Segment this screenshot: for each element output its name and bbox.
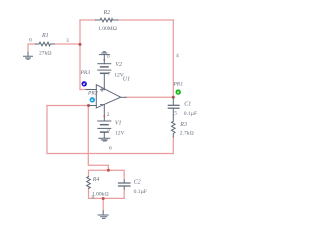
junction ground bottom	[102, 197, 105, 200]
svg-text:6: 6	[109, 145, 112, 151]
svg-text:V1: V1	[115, 120, 122, 126]
C1 plates	[168, 104, 179, 106]
wire RC box top rail	[89, 170, 125, 180]
C2 plates	[119, 182, 131, 184]
svg-text:0.1µF: 0.1µF	[134, 189, 147, 195]
wire ground stub bottom	[102, 198, 104, 211]
PR2 probe icon	[90, 97, 95, 102]
op-amp plus input pin	[86, 89, 96, 91]
op-amp plus input mark	[100, 88, 103, 91]
ground below V1	[99, 138, 110, 141]
svg-text:C1: C1	[184, 102, 191, 108]
svg-text:0.1µF: 0.1µF	[184, 111, 197, 117]
svg-text:1.00MΩ: 1.00MΩ	[98, 26, 117, 32]
svg-text:C2: C2	[134, 180, 141, 186]
op-amp V+ power pin 7	[103, 74, 105, 90]
V2 top lead	[103, 55, 105, 64]
svg-text:V2: V2	[115, 62, 122, 68]
junction RC tap	[107, 169, 110, 172]
svg-text:12V: 12V	[115, 130, 125, 136]
wire left rectangle node 6	[47, 106, 173, 154]
svg-text:2: 2	[107, 112, 110, 118]
C1 top lead	[172, 97, 174, 105]
junction node 3	[79, 43, 82, 46]
wire feedback drop node 6	[88, 106, 108, 171]
wire right vertical node 4	[172, 20, 174, 97]
PR1 probe icon	[176, 89, 181, 94]
op-amp output pin	[121, 96, 126, 98]
svg-text:PR3: PR3	[80, 70, 91, 76]
V1 bottom lead	[103, 132, 105, 138]
wire minus input node 6	[47, 105, 89, 107]
svg-text:U1: U1	[123, 76, 130, 82]
resistor R4	[87, 177, 91, 189]
pin connection dot V2 top	[103, 59, 105, 61]
svg-text:0: 0	[92, 195, 95, 201]
wire top horizontal node 4	[80, 19, 173, 21]
svg-text:2.7kΩ: 2.7kΩ	[180, 130, 194, 136]
R1 body	[36, 42, 55, 46]
svg-text:0: 0	[29, 38, 32, 44]
ground bottom	[98, 211, 108, 218]
svg-text:12V: 12V	[114, 72, 124, 78]
V1 plates	[98, 120, 111, 122]
svg-text:R3: R3	[179, 122, 187, 128]
op-amp minus input pin	[89, 105, 97, 107]
wire ground to R1	[28, 44, 36, 53]
svg-text:R4: R4	[92, 176, 100, 183]
C2 bottom lead	[123, 186, 125, 189]
op-amp minus input mark	[100, 104, 103, 106]
pin connection dot V1 top	[103, 115, 105, 117]
junction node 6 minus	[87, 104, 90, 107]
svg-text:7: 7	[108, 72, 111, 78]
svg-text:5: 5	[174, 111, 177, 117]
resistor R3	[172, 115, 176, 137]
wire output node 4	[126, 96, 173, 98]
C1 bottom lead	[172, 108, 174, 115]
svg-text:PR2: PR2	[87, 91, 98, 97]
svg-text:3: 3	[66, 38, 69, 44]
wire RC box bottom rail	[89, 188, 125, 198]
ground left	[24, 53, 33, 60]
op-amp U1	[96, 85, 120, 108]
wire R1 to node 3	[54, 43, 80, 45]
svg-text:PR1: PR1	[172, 82, 183, 88]
op-amp V- power pin 2	[103, 105, 105, 121]
V2 plates	[98, 63, 111, 65]
svg-text:R1: R1	[41, 33, 49, 39]
wire plus input	[80, 89, 88, 91]
svg-text:R2: R2	[103, 10, 111, 16]
resistor R2	[95, 18, 118, 22]
PR3 probe icon	[82, 81, 87, 86]
ground flipped above V2	[99, 52, 109, 55]
junction node 4 output	[172, 96, 175, 99]
wire left vertical node 3	[79, 20, 81, 90]
svg-text:1.00kΩ: 1.00kΩ	[92, 192, 109, 198]
C2 top lead	[123, 180, 125, 183]
svg-text:4: 4	[176, 53, 179, 59]
svg-text:27kΩ: 27kΩ	[39, 50, 52, 56]
